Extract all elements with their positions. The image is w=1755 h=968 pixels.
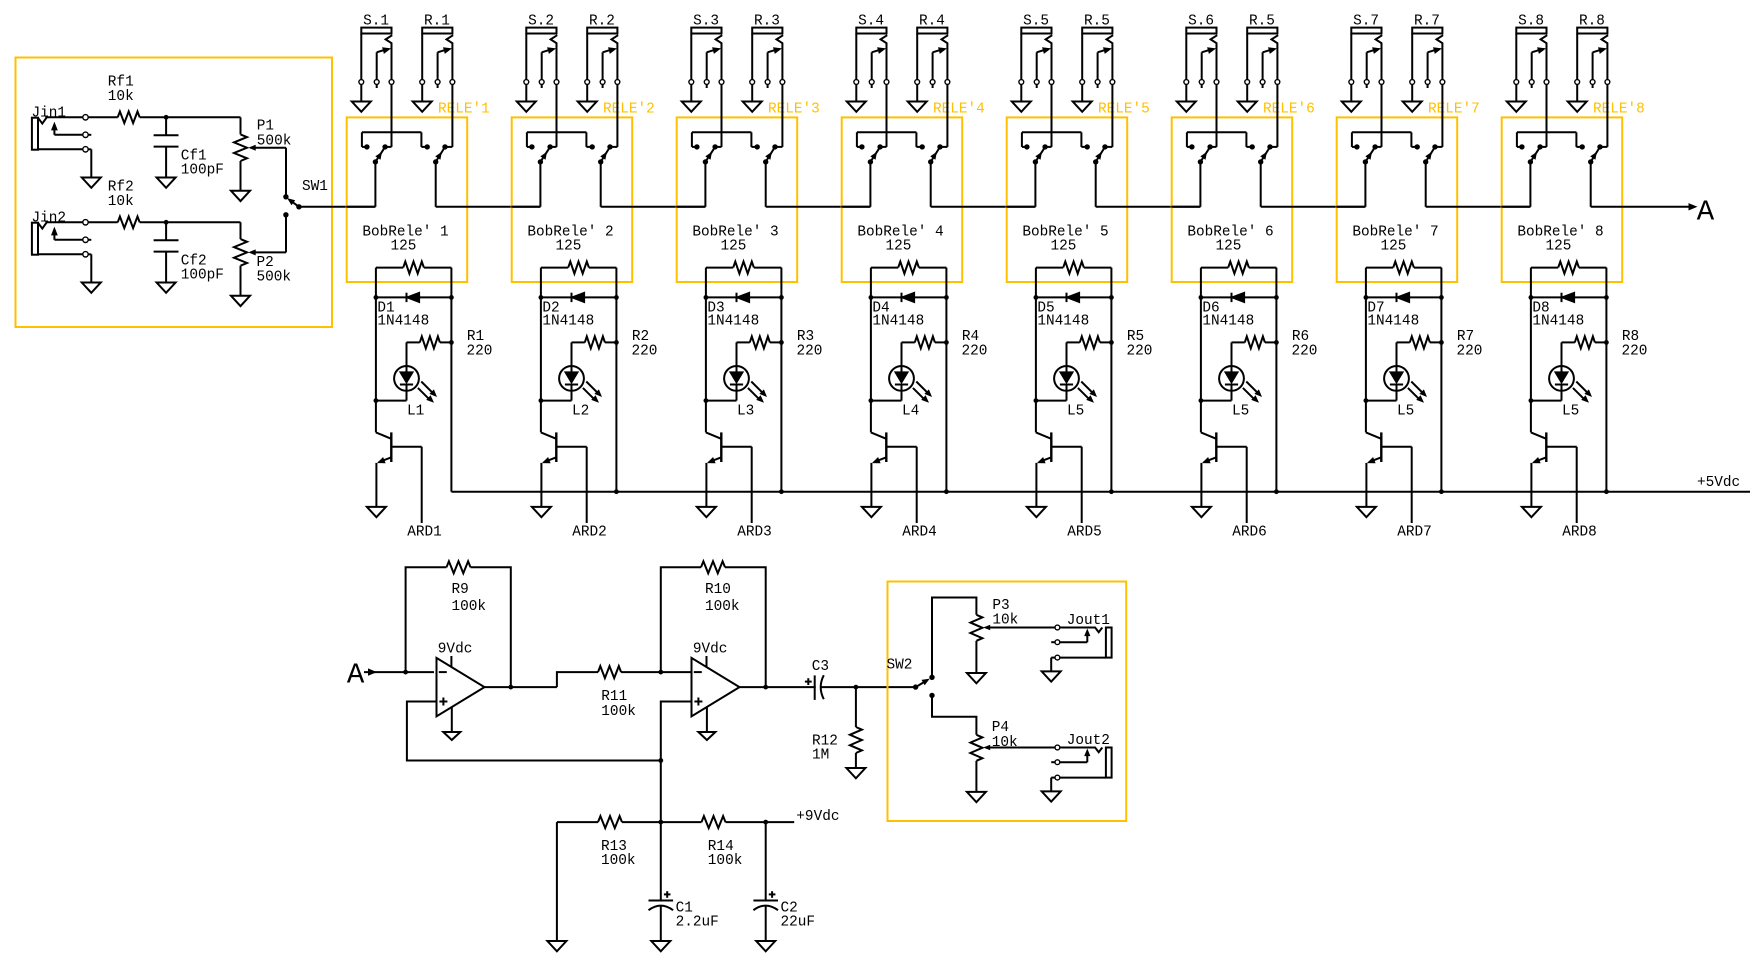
- svg-text:10k: 10k: [992, 735, 1018, 751]
- wire: [285, 148, 287, 197]
- op-amp U1: [437, 642, 485, 717]
- svg-text:L3: L3: [737, 403, 754, 419]
- svg-text:ARD2: ARD2: [572, 525, 607, 541]
- svg-text:P4: P4: [992, 720, 1009, 736]
- svg-text:R10: R10: [705, 582, 731, 598]
- svg-text:L5: L5: [1067, 403, 1084, 419]
- resistor R4: [902, 329, 988, 360]
- relay coil BobRele' 7: [1352, 225, 1441, 274]
- relay contact 1 of RELE'2: [527, 85, 595, 165]
- svg-text:ARD8: ARD8: [1562, 525, 1597, 541]
- svg-text:220: 220: [1292, 343, 1318, 359]
- resistor R7: [1397, 329, 1483, 360]
- ground: [352, 85, 371, 112]
- transistor Q4: [871, 432, 917, 507]
- wire: [140, 115, 241, 120]
- resistor R1: [407, 329, 493, 360]
- node ARD2: [572, 447, 607, 541]
- capacitor Cf2: [154, 222, 224, 283]
- svg-text:220: 220: [1457, 343, 1483, 359]
- diode D1: [376, 293, 452, 330]
- relay box RELE'2: [512, 102, 655, 282]
- jack Jout2: [1042, 733, 1112, 802]
- wire: op-amp2 + input link: [661, 702, 692, 761]
- resistor R6: [1232, 329, 1318, 360]
- svg-text:ARD6: ARD6: [1232, 525, 1267, 541]
- svg-text:ARD5: ARD5: [1067, 525, 1102, 541]
- svg-text:Jout2: Jout2: [1067, 733, 1110, 749]
- ground: [547, 822, 566, 951]
- switch SW2: [887, 658, 935, 699]
- ground: [1238, 85, 1257, 112]
- node +9Vdc: [766, 809, 840, 825]
- wire: [1006, 162, 1035, 207]
- svg-text:1N4148: 1N4148: [542, 314, 594, 330]
- relay contact 2 of RELE'7: [1423, 85, 1442, 165]
- svg-text:220: 220: [962, 343, 988, 359]
- relay box RELE'7: [1337, 102, 1480, 282]
- transistor Q3: [706, 432, 752, 507]
- svg-text:L2: L2: [572, 403, 589, 419]
- wire: [676, 162, 705, 207]
- node ARD5: [1067, 447, 1102, 541]
- ground: [1073, 85, 1092, 112]
- transistor Q6: [1201, 432, 1247, 507]
- svg-text:A: A: [347, 658, 365, 691]
- svg-text:100k: 100k: [601, 704, 636, 720]
- potentiometer P4: [970, 720, 1054, 792]
- svg-text:S.4: S.4: [858, 14, 884, 30]
- LED L1: [376, 342, 437, 419]
- svg-text:220: 220: [467, 343, 493, 359]
- ground: [698, 708, 715, 741]
- svg-text:125: 125: [556, 239, 582, 255]
- svg-text:R.2: R.2: [589, 14, 615, 30]
- resistor R3: [737, 329, 823, 360]
- relay contact 1 of RELE'3: [692, 85, 760, 165]
- jack R.7: [1410, 14, 1445, 89]
- svg-text:R9: R9: [452, 582, 469, 598]
- transistor Q7: [1366, 432, 1412, 507]
- svg-text:R.8: R.8: [1579, 14, 1605, 30]
- svg-text:RELE'1: RELE'1: [438, 102, 490, 118]
- ground: [756, 941, 775, 951]
- svg-text:SW1: SW1: [302, 179, 328, 195]
- svg-text:100pF: 100pF: [181, 267, 224, 283]
- jack S.6: [1184, 14, 1219, 89]
- svg-text:L5: L5: [1232, 403, 1249, 419]
- svg-text:Jin1: Jin1: [32, 105, 67, 121]
- LED L3: [706, 342, 767, 419]
- resistor R8: [1562, 329, 1648, 360]
- jack S.4: [854, 14, 889, 89]
- diode D6: [1201, 293, 1277, 330]
- svg-text:1M: 1M: [812, 748, 829, 764]
- ground: [847, 85, 866, 112]
- transistor Q1: [376, 432, 422, 507]
- jack R.3: [750, 14, 785, 89]
- ground: [967, 673, 986, 683]
- relay coil BobRele' 3: [692, 225, 781, 274]
- relay contact 2 of RELE'4: [928, 85, 947, 165]
- LED L5: [1036, 342, 1097, 419]
- wire: [1604, 268, 1609, 492]
- potentiometer P2: [234, 222, 291, 295]
- relay contact 1 of RELE'6: [1187, 85, 1255, 165]
- ground: [682, 85, 701, 112]
- wire: [931, 162, 1036, 207]
- relay box RELE'3: [677, 102, 820, 282]
- jack R.1: [420, 14, 455, 89]
- wire: [403, 670, 408, 675]
- svg-text:10k: 10k: [992, 612, 1018, 628]
- jack R.5: [1080, 14, 1115, 89]
- ground: [1357, 507, 1376, 517]
- jack Jin2: [32, 211, 101, 293]
- ground: [651, 941, 670, 951]
- wire: [1336, 162, 1365, 207]
- ground: [413, 85, 432, 112]
- svg-text:+5Vdc: +5Vdc: [1697, 475, 1740, 491]
- relay contact 1 of RELE'5: [1022, 85, 1090, 165]
- wire: [658, 670, 691, 675]
- svg-text:ARD4: ARD4: [902, 525, 937, 541]
- diode D5: [1036, 293, 1112, 330]
- node ARD1: [407, 447, 442, 541]
- resistor R10: [661, 561, 766, 687]
- wire: [1591, 162, 1689, 207]
- resistor R13: [557, 816, 661, 869]
- resistor R14: [661, 816, 768, 869]
- resistor Rf1: [108, 74, 140, 123]
- relay box RELE'4: [842, 102, 985, 282]
- node ARD4: [902, 447, 937, 541]
- ground: [517, 85, 536, 112]
- wire: [436, 162, 541, 207]
- +5Vdc bus: [451, 475, 1750, 494]
- input conditioning box: [16, 58, 333, 328]
- relay coil BobRele' 5: [1022, 225, 1111, 274]
- node A (bottom input): [347, 658, 434, 691]
- node ARD3: [737, 447, 772, 541]
- ground: [157, 178, 176, 188]
- jack S.7: [1349, 14, 1384, 89]
- svg-text:S.3: S.3: [693, 14, 719, 30]
- svg-text:220: 220: [1127, 343, 1153, 359]
- svg-text:RELE'5: RELE'5: [1098, 102, 1150, 118]
- wire: [449, 268, 454, 492]
- svg-text:R.5: R.5: [1249, 14, 1275, 30]
- ground: [908, 85, 927, 112]
- wire: [944, 268, 949, 492]
- resistor Rf2: [108, 179, 140, 228]
- diode D2: [541, 293, 617, 330]
- wire: [485, 685, 557, 690]
- svg-text:100k: 100k: [601, 853, 636, 869]
- switch SW1: [283, 179, 328, 218]
- svg-text:RELE'4: RELE'4: [933, 102, 985, 118]
- jack S.3: [689, 14, 724, 89]
- wire: [1171, 162, 1200, 207]
- relay contact 2 of RELE'2: [598, 85, 617, 165]
- jack Jout1: [1042, 613, 1112, 682]
- relay coil BobRele' 8: [1517, 225, 1606, 274]
- svg-text:100pF: 100pF: [181, 162, 224, 178]
- wire: [1096, 162, 1201, 207]
- resistor R5: [1067, 329, 1153, 360]
- svg-text:S.2: S.2: [528, 14, 554, 30]
- ground: [157, 283, 176, 293]
- wire: [1426, 162, 1531, 207]
- ground: [231, 296, 250, 306]
- svg-text:1N4148: 1N4148: [1202, 314, 1254, 330]
- jack R.5: [1245, 14, 1280, 89]
- svg-text:R.7: R.7: [1414, 14, 1440, 30]
- resistor R2: [572, 329, 658, 360]
- potentiometer P3: [970, 598, 1054, 673]
- LED L5: [1531, 342, 1592, 419]
- svg-text:R.3: R.3: [754, 14, 780, 30]
- svg-text:Jin2: Jin2: [32, 211, 67, 227]
- wire: [869, 268, 874, 433]
- wire: [1439, 268, 1444, 492]
- relay contact 1 of RELE'1: [362, 85, 430, 165]
- resistor R12: [812, 687, 862, 768]
- svg-text:10k: 10k: [108, 89, 134, 105]
- svg-text:Jout1: Jout1: [1067, 613, 1110, 629]
- ground: [1012, 85, 1031, 112]
- svg-text:220: 220: [797, 343, 823, 359]
- svg-text:1N4148: 1N4148: [377, 314, 429, 330]
- svg-text:10k: 10k: [108, 194, 134, 210]
- ground: [846, 768, 865, 778]
- node ARD6: [1232, 447, 1267, 541]
- ground: [862, 507, 881, 517]
- jack Jin1: [32, 105, 101, 188]
- svg-text:RELE'3: RELE'3: [768, 102, 820, 118]
- wire: [704, 268, 709, 433]
- svg-text:S.5: S.5: [1023, 14, 1049, 30]
- ground: [1403, 85, 1422, 112]
- svg-text:RELE'6: RELE'6: [1263, 102, 1315, 118]
- wire: [841, 162, 870, 207]
- svg-text:2.2uF: 2.2uF: [676, 915, 719, 931]
- svg-text:9Vdc: 9Vdc: [693, 642, 728, 658]
- potentiometer P1: [234, 117, 291, 191]
- ground: [697, 507, 716, 517]
- wire: [539, 268, 544, 433]
- ground: [532, 507, 551, 517]
- wire: [374, 268, 379, 433]
- svg-text:1N4148: 1N4148: [1532, 314, 1584, 330]
- relay contact 2 of RELE'3: [763, 85, 782, 165]
- relay contact 2 of RELE'6: [1258, 85, 1277, 165]
- wire: [1364, 268, 1369, 433]
- ground: [743, 85, 762, 112]
- wire: [932, 598, 976, 678]
- wire: [1109, 268, 1114, 492]
- transistor Q5: [1036, 432, 1082, 507]
- svg-text:C3: C3: [812, 659, 829, 675]
- LED L4: [871, 342, 932, 419]
- svg-text:L1: L1: [407, 403, 424, 419]
- wire: [1274, 268, 1279, 492]
- ground: [1507, 85, 1526, 112]
- svg-text:S.1: S.1: [363, 14, 389, 30]
- svg-text:500k: 500k: [257, 133, 292, 149]
- svg-text:125: 125: [886, 239, 912, 255]
- svg-text:22uF: 22uF: [781, 915, 816, 931]
- ground: [578, 85, 597, 112]
- jack R.2: [585, 14, 620, 89]
- svg-text:9Vdc: 9Vdc: [438, 642, 473, 658]
- relay box RELE'8: [1502, 102, 1645, 282]
- diode D8: [1531, 293, 1607, 330]
- svg-text:125: 125: [721, 239, 747, 255]
- svg-text:ARD7: ARD7: [1397, 525, 1432, 541]
- ground: [1027, 507, 1046, 517]
- wire: [1261, 162, 1366, 207]
- svg-text:100k: 100k: [452, 599, 487, 615]
- LED L2: [541, 342, 602, 419]
- svg-text:125: 125: [1381, 239, 1407, 255]
- ground: [1192, 507, 1211, 517]
- relay contact 1 of RELE'8: [1517, 85, 1585, 165]
- wire: [511, 162, 540, 207]
- svg-text:ARD1: ARD1: [407, 525, 442, 541]
- svg-text:1N4148: 1N4148: [1367, 314, 1419, 330]
- svg-text:RELE'2: RELE'2: [603, 102, 655, 118]
- ground: [1342, 85, 1361, 112]
- node A (top right): [1689, 196, 1715, 229]
- jack R.4: [915, 14, 950, 89]
- jack S.5: [1019, 14, 1054, 89]
- wire: [88, 116, 118, 118]
- wire: [779, 268, 784, 492]
- relay contact 2 of RELE'8: [1588, 85, 1607, 165]
- ground: [367, 507, 386, 517]
- transistor Q2: [541, 432, 587, 507]
- transistor Q8: [1531, 432, 1577, 507]
- wire: [601, 162, 706, 207]
- capacitor C3: [805, 659, 858, 700]
- relay box RELE'5: [1007, 102, 1150, 282]
- svg-text:500k: 500k: [257, 269, 292, 285]
- ground: [967, 792, 986, 802]
- ground: [1522, 507, 1541, 517]
- svg-text:L5: L5: [1397, 403, 1414, 419]
- svg-text:S.7: S.7: [1353, 14, 1379, 30]
- wire: [658, 761, 663, 825]
- svg-text:L5: L5: [1562, 403, 1579, 419]
- svg-text:S.8: S.8: [1518, 14, 1544, 30]
- node ARD8: [1562, 447, 1597, 541]
- wire: op-amp1 + input link: [407, 702, 663, 763]
- diode D4: [871, 293, 947, 330]
- svg-text:R.1: R.1: [424, 14, 450, 30]
- svg-text:1N4148: 1N4148: [707, 314, 759, 330]
- svg-text:R11: R11: [601, 689, 627, 705]
- relay contact 2 of RELE'5: [1093, 85, 1112, 165]
- svg-text:S.6: S.6: [1188, 14, 1214, 30]
- wire: [614, 268, 619, 492]
- wire: [766, 162, 871, 207]
- svg-text:R.4: R.4: [919, 14, 945, 30]
- ground: [231, 191, 250, 201]
- svg-text:125: 125: [1051, 239, 1077, 255]
- ground: [1177, 85, 1196, 112]
- wire: [346, 162, 375, 207]
- wire: [1501, 162, 1530, 207]
- svg-text:P1: P1: [257, 119, 274, 135]
- wire: [1529, 268, 1534, 433]
- wire: [140, 220, 241, 225]
- diode D7: [1366, 293, 1442, 330]
- svg-text:A: A: [1697, 196, 1715, 229]
- svg-text:SW2: SW2: [887, 658, 913, 674]
- op-amp U2: [692, 642, 740, 717]
- relay coil BobRele' 1: [362, 225, 451, 274]
- ground: [1568, 85, 1587, 112]
- resistor R9: [406, 561, 511, 687]
- wire: [1199, 268, 1204, 433]
- relay coil BobRele' 4: [857, 225, 946, 274]
- svg-text:RELE'8: RELE'8: [1593, 102, 1645, 118]
- wire: [856, 686, 916, 688]
- output box: [888, 582, 1127, 822]
- svg-text:125: 125: [391, 239, 417, 255]
- jack S.1: [359, 14, 394, 89]
- svg-text:100k: 100k: [705, 599, 740, 615]
- wire: [299, 206, 376, 208]
- svg-text:220: 220: [632, 343, 658, 359]
- wire: [1034, 268, 1039, 433]
- svg-text:1N4148: 1N4148: [1037, 314, 1089, 330]
- wire: [932, 695, 976, 734]
- resistor R11: [557, 666, 661, 720]
- relay contact 1 of RELE'4: [857, 85, 925, 165]
- svg-text:125: 125: [1216, 239, 1242, 255]
- ground: [443, 708, 460, 741]
- relay coil BobRele' 6: [1187, 225, 1276, 274]
- jack R.8: [1575, 14, 1610, 89]
- relay coil BobRele' 2: [527, 225, 616, 274]
- svg-text:1N4148: 1N4148: [872, 314, 924, 330]
- svg-text:125: 125: [1546, 239, 1572, 255]
- wire: [285, 215, 287, 253]
- svg-text:L4: L4: [902, 403, 919, 419]
- node ARD7: [1397, 447, 1432, 541]
- wire: [88, 221, 118, 223]
- relay contact 2 of RELE'1: [433, 85, 452, 165]
- diode D3: [706, 293, 782, 330]
- relay box RELE'6: [1172, 102, 1315, 282]
- svg-text:220: 220: [1622, 343, 1648, 359]
- svg-text:+9Vdc: +9Vdc: [796, 809, 839, 825]
- capacitor Cf1: [154, 117, 224, 178]
- svg-text:ARD3: ARD3: [737, 525, 772, 541]
- jack S.2: [524, 14, 559, 89]
- wire: [740, 685, 816, 690]
- svg-text:R.5: R.5: [1084, 14, 1110, 30]
- jack S.8: [1514, 14, 1549, 89]
- relay contact 1 of RELE'7: [1352, 85, 1420, 165]
- LED L5: [1366, 342, 1427, 419]
- svg-text:RELE'7: RELE'7: [1428, 102, 1480, 118]
- svg-text:100k: 100k: [708, 853, 743, 869]
- LED L5: [1201, 342, 1262, 419]
- relay box RELE'1: [347, 102, 490, 282]
